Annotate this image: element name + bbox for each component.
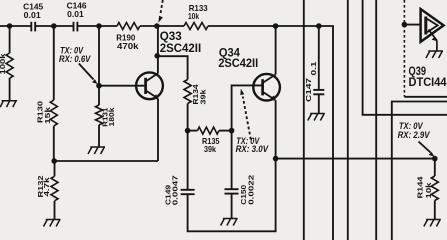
svg-text:10k: 10k xyxy=(424,182,433,199)
wire C149 top lead xyxy=(187,131,189,190)
arrow annotation to collector node (dashed, from top edge) xyxy=(158,0,163,23)
resistor R144 xyxy=(431,176,438,201)
wire top rail segment E with corner down at x=333 xyxy=(208,26,333,240)
wire 100k resistor lead xyxy=(9,26,11,53)
resistor R135 xyxy=(197,127,219,134)
wire dashed bus to Q39 node xyxy=(403,0,405,97)
svg-text:C147: C147 xyxy=(304,78,313,102)
wire Q33 emitter lead xyxy=(157,99,159,161)
wire bus vertical 4 xyxy=(375,0,377,240)
wire bus vertical 1 xyxy=(303,0,305,240)
transistor Q33 xyxy=(136,72,163,99)
wire C150 top lead xyxy=(231,131,233,189)
svg-text:0.1: 0.1 xyxy=(309,60,318,75)
ground (under 100k) xyxy=(0,101,17,108)
resistor R130 xyxy=(50,100,57,126)
resistor R133 xyxy=(184,23,208,30)
capacitor C145 xyxy=(31,22,35,32)
wire R144 top lead xyxy=(434,159,436,176)
resistor 100k (left edge) xyxy=(6,53,13,78)
svg-text:470k: 470k xyxy=(117,41,139,51)
node R130/R132 junction xyxy=(51,158,57,164)
wire 100k to ground xyxy=(9,78,11,101)
capacitor C150 xyxy=(225,189,239,193)
node Q34 emitter junction xyxy=(273,156,279,162)
node R190/R133 junction xyxy=(154,23,160,29)
wire bus vertical 5 with corner from right edge xyxy=(392,102,447,240)
wire top rail segment D xyxy=(140,25,184,27)
wire top rail segment C xyxy=(77,25,117,27)
wire Q34 collector lead xyxy=(275,26,277,74)
ground (under R144) xyxy=(424,220,441,227)
wire R131 bottom lead xyxy=(98,125,100,147)
capacitor C149 xyxy=(181,190,195,194)
wire C149 bottom loop to emitter node xyxy=(188,159,276,232)
svg-text:0.0047: 0.0047 xyxy=(170,175,179,205)
wire Q33 base lead xyxy=(99,85,145,87)
wire R130 top lead xyxy=(53,26,55,100)
svg-text:39k: 39k xyxy=(198,89,207,105)
svg-text:2SC42II: 2SC42II xyxy=(218,56,258,70)
resistor R131 xyxy=(96,105,103,125)
wire R144 bottom lead xyxy=(434,201,436,220)
wire top rail segment B xyxy=(35,25,73,27)
wire top rail segment A xyxy=(0,25,31,27)
ground (under C150) xyxy=(221,219,238,226)
arrow annotation TX/RX 2.9V to R144 node xyxy=(419,142,435,157)
wire Q33 collector lead xyxy=(157,26,159,73)
wire emitter rail right to R144 xyxy=(276,158,435,160)
wire C147 to ground xyxy=(318,94,320,113)
wire Q34 base riser xyxy=(232,85,262,130)
resistor R190 xyxy=(117,23,140,30)
ground (under Q39) xyxy=(426,51,443,58)
svg-text:10k: 10k xyxy=(188,11,199,21)
transistor Q34 xyxy=(253,74,280,101)
svg-text:0.0022: 0.0022 xyxy=(246,175,255,205)
svg-text:180k: 180k xyxy=(107,107,116,127)
wire C150 to ground xyxy=(231,194,233,219)
ground (under C147) xyxy=(308,114,325,121)
node Q33 base junction xyxy=(96,83,102,89)
wire collector to R134 xyxy=(157,56,187,79)
arrow annotation TX/RX 0.6V to base node xyxy=(79,64,98,85)
wire Q39 input lead xyxy=(404,24,420,26)
svg-text:DTCI44: DTCI44 xyxy=(409,75,447,89)
svg-text:39k: 39k xyxy=(204,144,216,154)
svg-text:RX: 3.0V: RX: 3.0V xyxy=(236,144,269,155)
transistor Q39 (digital, DTC144) xyxy=(421,9,444,51)
wire bus vertical 2 xyxy=(347,0,349,240)
capacitor C146 xyxy=(74,22,78,32)
svg-text:0.01: 0.01 xyxy=(67,9,84,19)
svg-text:RX: 2.9V: RX: 2.9V xyxy=(398,130,430,141)
wire R132 top lead xyxy=(54,161,56,176)
wire R135 right lead xyxy=(219,130,232,132)
node R134/R135/C149 junction xyxy=(185,128,191,134)
node R131 top junction xyxy=(96,23,102,29)
svg-text:4.7k: 4.7k xyxy=(42,177,51,197)
resistor R134 xyxy=(184,80,191,104)
node Q34 collector junction xyxy=(273,23,279,29)
wire R135 left lead xyxy=(188,130,198,132)
wire base feed vertical xyxy=(98,26,100,105)
svg-text:2SC42II: 2SC42II xyxy=(160,41,202,55)
wire R130 bottom lead xyxy=(53,126,55,161)
svg-text:RX: 0.6V: RX: 0.6V xyxy=(59,54,91,65)
capacitor C147 xyxy=(313,90,324,94)
node R144 junction xyxy=(432,156,438,162)
node C145/C146 junction xyxy=(51,23,57,29)
ground (under R131) xyxy=(88,147,105,154)
svg-text:0.01: 0.01 xyxy=(24,10,41,20)
wire Q34 emitter lead xyxy=(275,100,277,158)
wire dashed bus corner to right edge xyxy=(404,96,447,98)
svg-text:15k: 15k xyxy=(43,106,52,124)
resistor R132 xyxy=(51,176,58,201)
node R135/C150/Q34-base junction xyxy=(229,128,235,134)
node input junction xyxy=(7,23,13,29)
wire C147 top lead xyxy=(318,26,320,90)
wire emitter rail left xyxy=(54,160,158,162)
arrow annotation TX/RX 3.0V to Q34 base (dashed) xyxy=(240,89,250,140)
wire R132 bottom lead xyxy=(54,201,56,220)
wire bus vertical 3 with corner to right edge xyxy=(363,0,447,115)
svg-text:100k: 100k xyxy=(0,53,7,75)
node C147 junction xyxy=(316,23,322,29)
ground (under R132) xyxy=(44,220,61,227)
node Q39 input junction xyxy=(402,22,408,28)
node Q33 collector branch xyxy=(154,53,160,59)
